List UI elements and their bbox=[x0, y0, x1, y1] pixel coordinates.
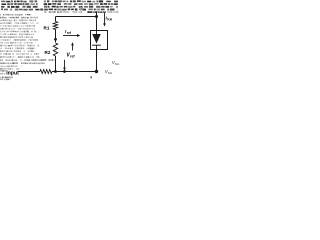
page text garble: top band row 1 bbox=[1, 0, 118, 2]
junction dot cathode node bbox=[95, 15, 98, 18]
annotation arrow Iref bbox=[63, 35, 77, 37]
TL431 box U1 bbox=[91, 31, 108, 50]
resistor R2 bbox=[53, 43, 57, 56]
junction dot anode foot bbox=[95, 70, 98, 73]
page text garble: top band partial row 5 bbox=[44, 11, 119, 13]
wire R1 to node A bbox=[55, 30, 57, 43]
garble before Input bbox=[0, 70, 1, 72]
junction dot R2 foot bbox=[54, 70, 57, 73]
annotation arrow Vref upper (points up at Iref wire) bbox=[72, 45, 74, 50]
page text garble: top band row 3 bbox=[1, 6, 118, 8]
junction dot Vref foot bbox=[63, 70, 66, 73]
wire input lead bbox=[19, 71, 41, 73]
annotation arrow Vref lower (points down at rail) bbox=[64, 60, 66, 68]
page text garble: top band row 2 bbox=[2, 3, 118, 5]
diode cathode bar bbox=[92, 44, 101, 46]
page text garble: left column bbox=[0, 14, 55, 80]
wire cathode node to box top bbox=[96, 17, 98, 31]
wire R2 to bottom rail bbox=[55, 56, 57, 72]
wire bottom rail bbox=[52, 71, 97, 73]
annotation arrow IKA bbox=[104, 12, 106, 24]
resistor R1 bbox=[53, 22, 57, 30]
page text garble: top band row 4 bbox=[1, 9, 118, 11]
wire box bottom to bottom rail bbox=[96, 50, 98, 72]
resistor Rin horizontal bbox=[40, 70, 52, 74]
svg-text:Input: Input bbox=[6, 71, 19, 77]
svg-text:R1: R1 bbox=[44, 25, 50, 30]
wire cathode up-stub bbox=[96, 11, 98, 16]
wire corner to R1 bbox=[55, 17, 57, 22]
svg-text:R2: R2 bbox=[45, 50, 51, 55]
paragraph cursor glyph in top band bbox=[80, 6, 86, 11]
stray text speck bbox=[90, 76, 92, 78]
diode triangle bbox=[92, 34, 101, 44]
wire top rail bbox=[56, 16, 97, 18]
junction dot node A bbox=[54, 38, 57, 41]
diode bottom lead bbox=[96, 45, 98, 49]
svg-text:KA: KA bbox=[107, 18, 112, 22]
diode top lead bbox=[96, 31, 98, 35]
